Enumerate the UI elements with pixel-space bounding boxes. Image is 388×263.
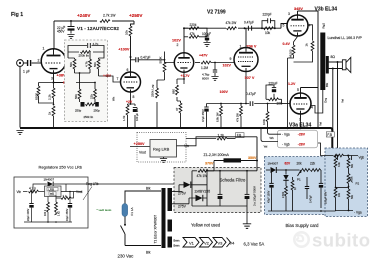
box bias B	[325, 148, 368, 217]
wire Vga stub	[268, 129, 282, 134]
svg-text:47k 2W: 47k 2W	[236, 113, 240, 122]
svg-text:P2: P2	[356, 182, 360, 186]
svg-text:+: +	[63, 25, 65, 29]
resistor 1 k2 reg	[55, 198, 61, 216]
resistor Rg2 screen	[305, 23, 326, 51]
svg-text:+1.7V: +1.7V	[181, 74, 191, 78]
capacitor 100uF 25V	[133, 107, 139, 121]
wire Vgb stub	[261, 129, 278, 142]
svg-text:Vgb: Vgb	[359, 156, 365, 160]
diode bias	[266, 167, 287, 173]
wire bias bottom	[268, 199, 321, 211]
capacitor 0.47uF inline	[250, 101, 253, 106]
resistor 47k	[184, 32, 207, 38]
box F.B left	[233, 133, 244, 139]
svg-text:1N4007: 1N4007	[268, 162, 279, 166]
svg-text:1k: 1k	[305, 43, 309, 47]
capacitor 100uF	[202, 32, 211, 42]
svg-text:62V: 62V	[285, 162, 292, 166]
svg-text:Vout: Vout	[139, 151, 146, 155]
svg-text:22k: 22k	[90, 94, 94, 99]
potentiometer 250k Log	[151, 80, 165, 128]
capacitor 250p left	[75, 99, 85, 113]
svg-text:V2 7199: V2 7199	[207, 10, 226, 16]
capacitor 220pF fb	[262, 13, 275, 29]
resistor 1.5k	[122, 105, 129, 121]
node Vb	[63, 78, 71, 84]
svg-text:Wh: Wh	[270, 136, 275, 140]
svg-text:102V: 102V	[172, 39, 181, 43]
svg-text:+240V: +240V	[77, 13, 91, 18]
resistor 10k fb	[264, 27, 274, 35]
svg-text:4: 4	[311, 106, 313, 110]
diode D2	[189, 170, 208, 206]
svg-text:2: 2	[177, 43, 179, 47]
svg-text:0.47µF: 0.47µF	[310, 195, 313, 203]
resistor 500K grid	[159, 52, 175, 81]
ground	[203, 43, 210, 47]
wire mid join	[75, 73, 105, 89]
svg-text:Wh: Wh	[112, 96, 116, 101]
svg-text:2x6BY255: 2x6BY255	[195, 190, 211, 194]
capacitor 10uF 350V reg	[66, 191, 72, 222]
ground filtro	[243, 206, 251, 228]
trimmer P1	[286, 169, 321, 182]
svg-text:0.4V: 0.4V	[283, 42, 291, 46]
svg-text:1N4007: 1N4007	[44, 178, 55, 182]
wire cathode to junction	[54, 74, 65, 83]
trimmer P2 20k	[347, 174, 359, 190]
resistor 100K grid leak	[262, 103, 269, 127]
output transformer core	[320, 33, 325, 91]
svg-text:Rg2: Rg2	[322, 23, 326, 29]
svg-text:8: 8	[133, 95, 135, 99]
svg-text:3.9k: 3.9k	[338, 162, 341, 167]
svg-text:Yellow not used: Yellow not used	[191, 223, 221, 228]
svg-text:50k: 50k	[69, 62, 73, 67]
svg-text:-28V: -28V	[298, 133, 306, 137]
svg-text:+100V: +100V	[118, 48, 130, 52]
wire Vout stub	[130, 146, 150, 148]
svg-text:* vedi testo: * vedi testo	[97, 208, 112, 212]
svg-text:4.7 k: 4.7 k	[29, 187, 36, 191]
resistor 22k lower-right	[90, 89, 97, 99]
capacitor 47uF 450V	[201, 104, 209, 128]
wire filter bottom	[192, 205, 247, 207]
wire V3a cathode	[300, 119, 302, 127]
svg-text:Yel: Yel	[264, 145, 268, 149]
switch SW1	[121, 217, 127, 246]
svg-text:100 k: 100 k	[44, 209, 47, 216]
wire mains bottom	[125, 245, 161, 247]
capacitor 0.47uF bias	[305, 177, 313, 203]
svg-text:+2V: +2V	[126, 100, 133, 104]
svg-text:600V: 600V	[202, 77, 209, 81]
capacitor 1uF 250V	[65, 80, 76, 96]
wire V1a anode riser	[53, 21, 55, 49]
wire secondary taps	[329, 62, 343, 69]
tube V1b triode	[121, 66, 141, 92]
junction on rail	[70, 20, 72, 22]
svg-text:+47V: +47V	[199, 54, 208, 58]
svg-text:1 k2: 1 k2	[58, 211, 61, 216]
junction plate node	[244, 27, 246, 29]
svg-text:2.2k: 2.2k	[48, 94, 52, 100]
capacitor 250p right	[94, 99, 101, 113]
svg-text:1.2V: 1.2V	[288, 82, 296, 86]
fuse F1 1A	[122, 204, 134, 217]
svg-text:4: 4	[309, 24, 311, 28]
wire screen tap V3a	[311, 90, 323, 113]
resistor 50k right	[93, 52, 104, 76]
capacitor filter 1	[218, 170, 223, 206]
svg-text:275V: 275V	[178, 192, 187, 196]
svg-text:220pF: 220pF	[263, 13, 272, 17]
svg-text:100µF 63V: 100µF 63V	[325, 191, 328, 204]
resistor 1.2M grid pentode	[195, 61, 234, 70]
svg-text:adj: adj	[50, 192, 54, 196]
svg-text:47µF 450V: 47µF 450V	[201, 109, 205, 122]
svg-text:50k: 50k	[93, 62, 97, 67]
svg-text:V1 - 12AU7/ECC82: V1 - 12AU7/ECC82	[77, 26, 119, 32]
box F.B right	[326, 132, 334, 137]
svg-text:Reg LRB: Reg LRB	[153, 147, 170, 152]
tube V2a triode	[174, 28, 193, 72]
svg-text:0.47µF: 0.47µF	[244, 21, 254, 25]
heater chevron Brwn labels	[174, 239, 180, 248]
wire input to grid	[32, 62, 42, 64]
resistor 56k bias b	[347, 155, 354, 174]
svg-text:Brwn: Brwn	[174, 239, 180, 243]
svg-text:Org: Org	[323, 98, 327, 103]
wire Vin stub	[177, 137, 258, 146]
capacitor 22uF 450V	[57, 21, 75, 34]
resistor 15k bias	[334, 155, 341, 188]
svg-text:370V: 370V	[205, 162, 214, 166]
svg-text:Lundhal LL 166.3 P/P: Lundhal LL 166.3 P/P	[328, 36, 363, 40]
heater banner V1	[183, 238, 199, 248]
svg-text:7: 7	[117, 77, 119, 81]
svg-text:8Ω: 8Ω	[331, 55, 336, 59]
resistor 250k lin upper	[68, 51, 104, 58]
wire bias B top	[318, 143, 358, 160]
resistor 2.2k cathode	[48, 83, 55, 105]
svg-text:Brwn: Brwn	[174, 244, 180, 248]
svg-text:230 Vac: 230 Vac	[118, 253, 135, 258]
capacitor 220uF	[269, 82, 278, 100]
resistor 47k 2W screen	[236, 103, 243, 128]
svg-text:Vin: Vin	[17, 190, 22, 194]
wire V3a grid	[282, 103, 291, 105]
transformer T1 secondary HV	[168, 188, 173, 211]
svg-text:107 V: 107 V	[245, 76, 255, 80]
svg-text:5: 5	[297, 88, 299, 92]
tube V3a	[290, 88, 311, 120]
svg-text:F1 1A: F1 1A	[130, 207, 134, 215]
svg-text:Blk: Blk	[325, 82, 329, 87]
capacitor 0.47uF coupling	[136, 56, 165, 63]
wire anode junction	[131, 57, 136, 66]
resistor 10k bias b	[334, 187, 348, 211]
wire 275V bottom	[172, 203, 189, 205]
svg-text:2: 2	[38, 59, 40, 63]
svg-text:ML100: ML100	[288, 49, 292, 57]
svg-text:250k Log: 250k Log	[151, 84, 155, 97]
junction dots bus	[53, 127, 243, 129]
svg-text:-28V: -28V	[298, 142, 306, 146]
svg-text:250p: 250p	[94, 109, 101, 113]
capacitor 22uF 400V reg	[27, 191, 34, 222]
svg-text:47k 1W: 47k 1W	[197, 174, 208, 178]
svg-text:1.2M: 1.2M	[201, 66, 208, 70]
wire mains top	[125, 191, 161, 204]
svg-text:1 k: 1 k	[63, 194, 68, 198]
wire bias b bottom	[321, 210, 353, 213]
svg-text:820K: 820K	[34, 93, 38, 100]
resistor 820K	[34, 86, 40, 100]
watermark subito logo	[294, 232, 308, 246]
choke Z1	[204, 153, 258, 163]
svg-text:2.62k: 2.62k	[282, 191, 285, 198]
capacitor 47uF 150V bias	[267, 169, 273, 211]
svg-text:Reg LRb: Reg LRb	[86, 182, 99, 186]
svg-text:V3: V3	[218, 240, 224, 245]
svg-text:+250V: +250V	[134, 142, 146, 146]
svg-text:47µF 150V: 47µF 150V	[267, 190, 270, 203]
junction V3a cathode bus	[299, 127, 301, 129]
wire input shield down	[19, 66, 21, 127]
svg-text:20k: 20k	[297, 162, 303, 166]
svg-text:5: 5	[283, 24, 285, 28]
resistor 220k	[184, 23, 207, 33]
wire filter top rail	[207, 170, 257, 172]
svg-text:Regolatore 250 Vcc LRb: Regolatore 250 Vcc LRb	[39, 165, 83, 170]
svg-text:100V: 100V	[220, 90, 229, 94]
input jack J1	[17, 60, 27, 67]
svg-text:Yel: Yel	[318, 122, 322, 126]
resistor 50k lower-left	[74, 89, 81, 99]
svg-text:6,3 Vac 5A: 6,3 Vac 5A	[244, 241, 265, 246]
wire to V3b	[252, 24, 287, 29]
box regolatore	[14, 177, 88, 228]
wire V2a cathode	[177, 73, 184, 102]
svg-text:Fig 1: Fig 1	[11, 12, 23, 18]
svg-text:100µF: 100µF	[202, 32, 211, 36]
svg-text:- Vgb: - Vgb	[282, 142, 290, 146]
heater banner V3	[213, 238, 226, 248]
svg-text:1.5k: 1.5k	[122, 115, 126, 121]
svg-text:V2: V2	[204, 240, 210, 245]
ground regulator	[160, 157, 167, 162]
capacitor 0.47uF coupling 2	[244, 21, 254, 31]
capacitor 4.7k 600V	[202, 62, 219, 81]
resistor 4.7 k	[23, 187, 45, 193]
svg-text:4.7k: 4.7k	[85, 61, 89, 67]
svg-text:1k: 1k	[48, 111, 52, 115]
svg-text:V4: V4	[230, 240, 236, 245]
svg-text:47k 2W: 47k 2W	[226, 21, 237, 25]
svg-text:350V: 350V	[248, 156, 257, 160]
wire choke out up	[256, 137, 258, 171]
resistor 1k bias	[291, 177, 297, 199]
resistor 1 k adj	[56, 192, 74, 200]
svg-text:Yel: Yel	[341, 99, 345, 103]
wire B+ rail left	[54, 20, 134, 22]
svg-text:6: 6	[127, 68, 129, 72]
svg-text:10µF 350V: 10µF 350V	[66, 208, 69, 221]
svg-text:450V: 450V	[57, 30, 65, 34]
box bias labels	[278, 130, 318, 148]
svg-text:345V: 345V	[294, 7, 303, 11]
transformer T1 primary	[162, 188, 166, 248]
svg-text:3 x 100µF 500V: 3 x 100µF 500V	[253, 186, 257, 206]
resistor 100 k reg	[44, 197, 50, 223]
svg-text:3: 3	[51, 77, 53, 81]
heater banner V2	[200, 238, 213, 248]
capacitor 100uF 63V bias	[319, 177, 328, 208]
svg-text:Vout: Vout	[76, 190, 82, 194]
svg-text:4.7p: 4.7p	[93, 42, 99, 46]
svg-text:10k: 10k	[265, 31, 271, 35]
resistor cathode V3b	[288, 37, 313, 128]
ground bus main	[20, 128, 332, 148]
speaker LS1	[342, 57, 350, 72]
resistor 10k plate load	[125, 21, 134, 57]
label Reg LRb callout	[83, 182, 99, 200]
wire V2a plate rail	[184, 27, 262, 29]
wire 275V top	[172, 191, 183, 193]
tube V1a triode	[41, 49, 66, 74]
wire V1b cathode network	[128, 92, 136, 128]
svg-text:+250V: +250V	[129, 13, 143, 18]
resistor 1k tail	[48, 104, 55, 128]
wire LRB out	[61, 191, 82, 193]
wire reg bottom	[24, 221, 72, 223]
resistor 1.2k fb	[181, 134, 234, 140]
svg-text:Scheda Filtro: Scheda Filtro	[220, 178, 246, 183]
svg-text:275V: 275V	[178, 205, 187, 209]
resistor 10k bias feed	[266, 85, 282, 106]
dashed network box	[65, 40, 108, 122]
svg-text:Z1-2,3H 200mA: Z1-2,3H 200mA	[204, 153, 230, 157]
diode D1	[179, 182, 207, 192]
ground main	[16, 131, 23, 135]
svg-text:10k: 10k	[277, 102, 283, 106]
wire V2b cathode bus	[207, 71, 282, 103]
resistor 4.7k mid	[85, 52, 92, 73]
OT secondary bar	[326, 56, 329, 74]
ground	[67, 35, 74, 39]
svg-text:- Vga: - Vga	[354, 211, 362, 215]
capacitor 1uF input	[23, 60, 31, 74]
wire speaker return	[337, 62, 339, 156]
svg-text:9: 9	[230, 57, 232, 61]
tube V2b pentode	[234, 28, 258, 71]
resistor 47k 1W bleeder	[192, 161, 214, 185]
svg-text:22µF 400V: 22µF 400V	[27, 208, 30, 221]
svg-text:1 µF: 1 µF	[23, 70, 30, 74]
transformer T1 secondary heater1	[168, 220, 173, 232]
svg-text:F.B: F.B	[327, 133, 332, 137]
tube V3b	[287, 11, 308, 37]
junction V3b cathode bus	[286, 127, 288, 129]
resistor 6.8k 1W	[216, 104, 223, 128]
resistor 2.62k bias	[282, 185, 288, 211]
svg-text:P1: P1	[297, 178, 301, 182]
wire box out to V1b grid	[105, 76, 121, 82]
capacitor 4.7p	[68, 42, 104, 52]
resistor 680	[172, 85, 179, 95]
svg-text:subito: subito	[312, 230, 371, 251]
svg-text:250k lin: 250k lin	[79, 54, 90, 58]
svg-text:250k lin: 250k lin	[84, 115, 94, 119]
svg-text:2.7k 1W: 2.7k 1W	[103, 14, 116, 18]
svg-text:50k: 50k	[74, 94, 78, 99]
svg-text:T1 Edcor XPWR007: T1 Edcor XPWR007	[154, 215, 158, 244]
resistor trim lower	[86, 103, 96, 106]
svg-text:1: 1	[43, 47, 45, 51]
svg-text:102V: 102V	[223, 64, 232, 68]
resistor 47	[175, 101, 182, 128]
svg-text:680: 680	[172, 89, 176, 94]
resistor 2.7k 1W	[100, 14, 116, 23]
svg-text:10k: 10k	[125, 30, 129, 35]
resistor 50k left	[68, 52, 76, 73]
wire grid-leak branch	[39, 83, 54, 104]
box bias A	[265, 157, 331, 215]
svg-text:Blk: Blk	[146, 251, 151, 255]
svg-text:500K: 500K	[159, 56, 163, 63]
transformer T1 secondary heater2	[168, 237, 173, 248]
svg-text:47k: 47k	[190, 32, 196, 36]
svg-text:22k: 22k	[310, 162, 316, 166]
svg-text:3: 3	[288, 12, 290, 16]
box Reg LRB	[150, 140, 177, 158]
wire V3a plate	[301, 87, 319, 89]
svg-text:47: 47	[175, 107, 179, 111]
heater V4 arrow	[227, 238, 231, 248]
svg-text:250p: 250p	[75, 109, 82, 113]
zener bias	[283, 170, 288, 185]
svg-text:100k: 100k	[262, 118, 266, 125]
diode reg bypass	[33, 182, 184, 192]
box Scheda Filtro	[174, 168, 261, 213]
svg-text:Bias Supply card: Bias Supply card	[286, 223, 320, 228]
capacitor filter 2	[245, 170, 250, 206]
box LRB small	[45, 186, 62, 197]
svg-text:- Vga: - Vga	[282, 133, 290, 137]
svg-text:6.8k 1W: 6.8k 1W	[216, 112, 220, 122]
wire fb from 8ohm tap	[332, 69, 334, 132]
svg-text:V1: V1	[189, 240, 195, 245]
svg-text:100 µF 25V: 100 µF 25V	[135, 107, 139, 121]
svg-text:Blk: Blk	[146, 187, 151, 191]
wire V3b plate to OT	[298, 11, 319, 127]
svg-text:220k: 220k	[190, 23, 197, 27]
resistor 47k 2W plate	[226, 21, 237, 30]
svg-text:0.47µF: 0.47µF	[141, 56, 151, 60]
dotted box Reg LRB unit	[137, 133, 186, 163]
svg-text:0.47µF: 0.47µF	[246, 92, 256, 96]
resistor 56k bias c	[347, 189, 354, 211]
